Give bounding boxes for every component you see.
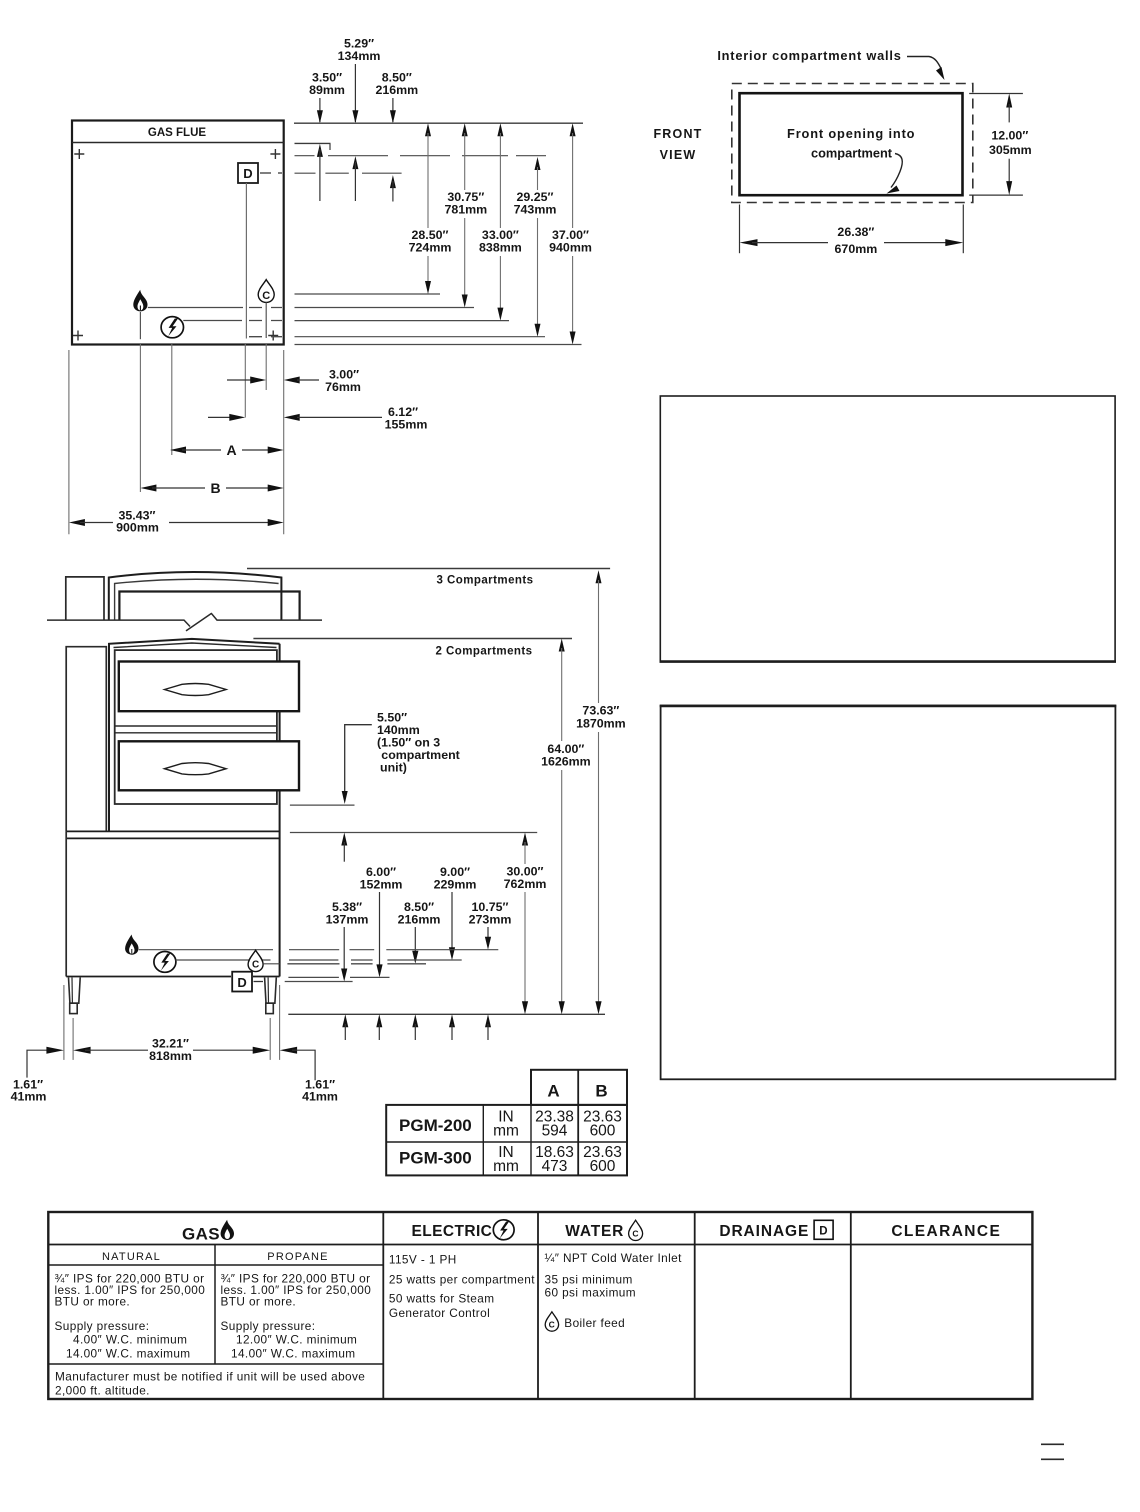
body bottom line bbox=[66, 976, 279, 978]
svg-text:C: C bbox=[252, 960, 259, 971]
svg-text:BTU or more.: BTU or more. bbox=[221, 1295, 297, 1309]
dim 30.75in 781mm bbox=[462, 123, 468, 136]
svg-text:B: B bbox=[210, 480, 220, 496]
svg-text:60 psi maximum: 60 psi maximum bbox=[545, 1286, 636, 1300]
dim 37.00in 940mm bbox=[570, 123, 576, 136]
SECTION: spec table bbox=[48, 1212, 1032, 1399]
dim 1.61 left bbox=[27, 1050, 50, 1077]
dim 5.50 leader bbox=[345, 725, 372, 791]
run line 37.00 target / box bottom extension bbox=[295, 344, 582, 346]
SECTION: plan dims top bbox=[294, 37, 592, 345]
SECTION: empty boxes bbox=[660, 396, 1117, 1079]
svg-text:724mm: 724mm bbox=[409, 241, 452, 255]
frame divider lines bbox=[115, 725, 277, 727]
svg-text:D: D bbox=[237, 975, 246, 990]
svg-text:B: B bbox=[595, 1082, 607, 1101]
svg-text:PGM-200: PGM-200 bbox=[399, 1116, 472, 1135]
door 1 handle bbox=[165, 684, 227, 696]
extension line left edge bbox=[68, 350, 70, 534]
svg-text:GAS FLUE: GAS FLUE bbox=[148, 127, 206, 139]
lower body left edge bbox=[65, 831, 67, 976]
svg-text:762mm: 762mm bbox=[504, 877, 547, 891]
svg-text:12.00″ W.C. minimum: 12.00″ W.C. minimum bbox=[236, 1333, 357, 1347]
floor opposing arrows bbox=[342, 1014, 348, 1027]
svg-text:670mm: 670mm bbox=[835, 242, 878, 256]
leader to dashed wall bbox=[907, 57, 941, 69]
dim 12.00in 305mm bbox=[969, 93, 1023, 95]
body bottom run line bbox=[288, 976, 389, 978]
corner cross bottom-right bbox=[268, 331, 278, 341]
extension line cold water bbox=[265, 344, 267, 390]
svg-text:NATURAL: NATURAL bbox=[102, 1251, 161, 1263]
plan view unit outline bbox=[72, 121, 284, 345]
drain D leader dash bbox=[254, 981, 264, 983]
svg-text:mm: mm bbox=[493, 1123, 519, 1140]
top datum line bbox=[294, 122, 583, 124]
svg-text:229mm: 229mm bbox=[434, 878, 477, 892]
run line 29.25 target bbox=[295, 336, 546, 338]
band extension line bbox=[290, 832, 537, 834]
svg-text:D: D bbox=[819, 1225, 828, 1237]
svg-text:41mm: 41mm bbox=[11, 1089, 47, 1103]
extension line gas bbox=[139, 344, 141, 492]
svg-text:600: 600 bbox=[590, 1123, 616, 1140]
extension line 3.50 target bbox=[295, 142, 331, 144]
cold water drop line bbox=[265, 303, 267, 339]
svg-text:89mm: 89mm bbox=[309, 83, 345, 97]
dim A bbox=[170, 447, 186, 454]
svg-text:2,000 ft. altitude.: 2,000 ft. altitude. bbox=[55, 1383, 150, 1397]
boiler feed note bbox=[545, 1312, 558, 1331]
svg-text:VIEW: VIEW bbox=[660, 148, 697, 162]
gas connection line bbox=[148, 307, 282, 309]
svg-text:14.00″ W.C. maximum: 14.00″ W.C. maximum bbox=[231, 1347, 356, 1361]
extension dashed line 5.29 target bbox=[295, 155, 547, 157]
svg-text:152mm: 152mm bbox=[360, 878, 403, 892]
two compartment right edge bbox=[279, 644, 281, 977]
svg-text:compartment: compartment bbox=[811, 146, 893, 161]
svg-text:PGM-300: PGM-300 bbox=[399, 1148, 472, 1167]
svg-text:FRONT: FRONT bbox=[653, 127, 702, 141]
break line bbox=[47, 613, 322, 627]
three compartment door bbox=[119, 592, 299, 621]
two compartments line bbox=[253, 638, 572, 640]
cold water C symbol bbox=[258, 280, 274, 303]
electric symbol bbox=[154, 952, 176, 973]
dim 5.50 lower arrow bbox=[341, 833, 347, 846]
floor line bbox=[288, 1013, 605, 1015]
left leg bbox=[69, 978, 81, 1004]
interior walls dashed rect bbox=[732, 84, 973, 203]
electric symbol bbox=[161, 317, 183, 338]
frame bottom extension bbox=[290, 804, 355, 806]
svg-text:A: A bbox=[547, 1082, 559, 1101]
header bottom line bbox=[48, 1244, 1032, 1246]
three compartments line bbox=[247, 568, 610, 570]
door 2 bbox=[119, 741, 299, 790]
drain D symbol box bbox=[238, 163, 258, 183]
svg-text:594: 594 bbox=[542, 1123, 568, 1140]
svg-text:26.38″: 26.38″ bbox=[837, 225, 874, 239]
lower extension lines bbox=[63, 985, 65, 1060]
ab table header cells bbox=[531, 1070, 627, 1105]
run line 30.75 target bbox=[295, 307, 475, 309]
corner cross top-left bbox=[74, 149, 84, 159]
svg-text:DRAINAGE: DRAINAGE bbox=[719, 1223, 809, 1240]
svg-text:Boiler feed: Boiler feed bbox=[564, 1316, 625, 1330]
svg-text:781mm: 781mm bbox=[444, 203, 487, 217]
front opening rect bbox=[740, 93, 963, 195]
two compartment inner top line bbox=[114, 643, 277, 648]
drain D drop line bbox=[245, 183, 247, 339]
dim 3.00in 76mm bbox=[227, 379, 253, 381]
dim 73.63in 1870mm bbox=[596, 570, 602, 583]
cold water connection line bbox=[263, 963, 279, 965]
gas flue band line bbox=[72, 142, 284, 144]
cold water C symbol bbox=[248, 950, 263, 971]
dim 28.50in 724mm bbox=[425, 123, 431, 136]
svg-text:940mm: 940mm bbox=[549, 241, 592, 255]
svg-text:D: D bbox=[243, 166, 252, 181]
svg-text:14.00″ W.C. maximum: 14.00″ W.C. maximum bbox=[66, 1347, 191, 1361]
gas flame symbol bbox=[133, 290, 147, 312]
svg-text:4.00″ W.C. minimum: 4.00″ W.C. minimum bbox=[73, 1333, 187, 1347]
corner cross bottom-left bbox=[73, 331, 83, 341]
dim 33.00in 838mm bbox=[497, 123, 503, 136]
svg-text:216mm: 216mm bbox=[398, 913, 441, 927]
manufacturer note row bbox=[48, 1363, 383, 1365]
svg-text:1626mm: 1626mm bbox=[541, 755, 591, 769]
svg-text:818mm: 818mm bbox=[149, 1049, 192, 1063]
lower note box bbox=[661, 706, 1116, 1080]
cold water run line bbox=[287, 963, 426, 965]
dim 1.61 right bbox=[280, 1047, 298, 1054]
SECTION: front view bbox=[653, 48, 1031, 256]
SECTION: ab table bbox=[386, 1070, 627, 1176]
ab table body bbox=[386, 1105, 627, 1176]
SECTION: side dims bbox=[11, 569, 626, 1104]
svg-text:12.00″: 12.00″ bbox=[991, 128, 1028, 142]
svg-text:C: C bbox=[632, 1229, 639, 1239]
svg-text:ELECTRIC: ELECTRIC bbox=[412, 1223, 493, 1240]
natural propane subheader bbox=[214, 1245, 216, 1365]
svg-text:GAS: GAS bbox=[182, 1224, 220, 1243]
svg-text:273mm: 273mm bbox=[469, 913, 512, 927]
three compartment body top bbox=[109, 572, 282, 620]
upper note box bbox=[660, 396, 1115, 662]
two compartment top bbox=[109, 639, 280, 832]
gas drop line bbox=[139, 312, 141, 339]
svg-text:743mm: 743mm bbox=[514, 203, 557, 217]
gas connection line bbox=[139, 949, 273, 951]
three compartment inner top bbox=[115, 579, 279, 620]
svg-text:50 watts for Steam: 50 watts for Steam bbox=[389, 1292, 495, 1306]
svg-text:BTU or more.: BTU or more. bbox=[55, 1295, 131, 1309]
svg-text:838mm: 838mm bbox=[479, 241, 522, 255]
spec table frame bbox=[48, 1212, 1032, 1399]
svg-text:unit): unit) bbox=[380, 761, 407, 775]
gas run line bbox=[289, 949, 498, 951]
extension dashed line 8.50 target bbox=[295, 172, 402, 174]
corner cross top-right bbox=[270, 149, 280, 159]
band lines bbox=[66, 830, 279, 832]
dim 35.43in 900mm bbox=[69, 519, 85, 526]
svg-text:¼″ NPT Cold Water Inlet: ¼″ NPT Cold Water Inlet bbox=[545, 1251, 683, 1265]
column dividers bbox=[382, 1212, 384, 1399]
extension line right edge bbox=[283, 350, 285, 534]
right leg bbox=[265, 978, 277, 1004]
dim B bbox=[140, 485, 156, 492]
svg-text:900mm: 900mm bbox=[116, 521, 159, 535]
dim 29.25in 743mm bbox=[535, 157, 541, 170]
door 1 bbox=[119, 662, 299, 712]
svg-text:Supply pressure:: Supply pressure: bbox=[55, 1319, 150, 1333]
svg-text:mm: mm bbox=[493, 1158, 519, 1175]
svg-text:137mm: 137mm bbox=[326, 913, 369, 927]
leader to bottom edge bbox=[891, 154, 902, 188]
svg-text:76mm: 76mm bbox=[325, 380, 361, 394]
drain D symbol box bbox=[232, 972, 252, 992]
footer mark line 1 bbox=[1041, 1443, 1064, 1445]
svg-text:600: 600 bbox=[590, 1158, 616, 1175]
svg-text:305mm: 305mm bbox=[989, 143, 1032, 157]
svg-text:25 watts per compartment: 25 watts per compartment bbox=[389, 1273, 535, 1287]
svg-text:Supply pressure:: Supply pressure: bbox=[221, 1319, 316, 1333]
drain D leader dash bbox=[260, 172, 282, 174]
svg-text:PROPANE: PROPANE bbox=[267, 1251, 328, 1263]
three compartment back strip bbox=[66, 577, 104, 620]
dim 26.38in 670mm bbox=[739, 205, 741, 254]
svg-text:C: C bbox=[549, 1320, 556, 1330]
svg-text:Generator Control: Generator Control bbox=[389, 1306, 490, 1320]
svg-text:A: A bbox=[226, 442, 236, 458]
svg-text:134mm: 134mm bbox=[338, 49, 381, 63]
svg-text:473: 473 bbox=[542, 1158, 568, 1175]
run line 33.00 target bbox=[295, 320, 510, 322]
dim 6.12in 155mm bbox=[208, 416, 232, 418]
svg-text:2 Compartments: 2 Compartments bbox=[435, 645, 532, 657]
run line 28.50 target bbox=[295, 293, 441, 295]
drain run line bbox=[285, 981, 353, 983]
electric run line bbox=[289, 959, 462, 961]
two compartment back strip bbox=[66, 647, 106, 832]
svg-text:115V - 1 PH: 115V - 1 PH bbox=[389, 1252, 457, 1266]
SECTION: plan dims bottom bbox=[69, 344, 427, 535]
extension line electric bbox=[171, 344, 173, 455]
svg-text:C: C bbox=[262, 290, 270, 302]
SECTION: plan view bbox=[72, 121, 284, 345]
svg-text:Interior compartment walls: Interior compartment walls bbox=[717, 48, 901, 63]
svg-text:3 Compartments: 3 Compartments bbox=[436, 574, 533, 586]
svg-text:Front opening into: Front opening into bbox=[787, 126, 915, 141]
svg-text:35 psi minimum: 35 psi minimum bbox=[545, 1273, 633, 1287]
gas flame symbol bbox=[125, 935, 138, 955]
footer mark line 2 bbox=[1041, 1458, 1064, 1460]
drain dashed run line bbox=[249, 336, 282, 338]
svg-text:WATER: WATER bbox=[565, 1223, 624, 1240]
inner door frame bbox=[115, 650, 277, 804]
svg-text:41mm: 41mm bbox=[302, 1089, 338, 1103]
dim 64.00in 1626mm bbox=[559, 639, 565, 652]
electric connection line bbox=[176, 959, 271, 961]
dim 32.21in 818mm bbox=[73, 1047, 91, 1054]
door 2 handle bbox=[165, 763, 227, 775]
svg-text:1870mm: 1870mm bbox=[576, 716, 626, 730]
svg-text:Manufacturer must be notified: Manufacturer must be notified if unit wi… bbox=[55, 1369, 365, 1383]
SECTION: page marks bbox=[1041, 1444, 1064, 1459]
svg-text:216mm: 216mm bbox=[375, 83, 418, 97]
svg-text:155mm: 155mm bbox=[385, 417, 428, 431]
electric connection line bbox=[183, 320, 282, 322]
extension line drain bbox=[244, 344, 246, 418]
SECTION: side view bbox=[47, 572, 322, 1014]
svg-text:CLEARANCE: CLEARANCE bbox=[891, 1223, 1001, 1240]
